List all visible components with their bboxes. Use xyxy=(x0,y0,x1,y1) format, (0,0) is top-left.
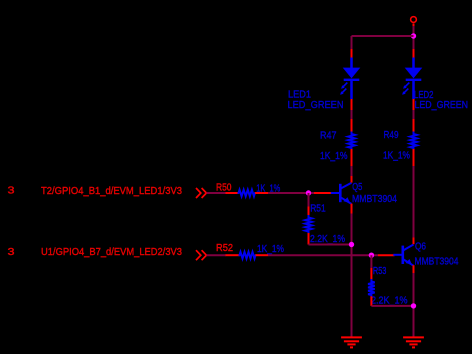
wire R53 to Q6 emitter xyxy=(371,305,413,307)
svg-text:R52: R52 xyxy=(216,242,233,254)
resistor R47 top pin xyxy=(351,119,353,132)
resistor R47 xyxy=(348,132,355,150)
wire connector to R50 xyxy=(207,192,227,194)
R51 value 2.2K_1% xyxy=(310,233,345,245)
R53 label xyxy=(373,265,387,277)
svg-text:Q6: Q6 xyxy=(415,241,426,253)
resistor R52 left pin xyxy=(226,254,240,256)
Q6 label xyxy=(415,241,426,253)
R50 label xyxy=(216,181,232,193)
svg-text:R51: R51 xyxy=(310,202,326,214)
Q5 label xyxy=(352,181,362,193)
Q6 collector pin xyxy=(413,238,415,245)
wire R51 to Q5 emitter xyxy=(309,244,352,246)
wire R49 to Q6 collector xyxy=(413,166,415,238)
wire Q5 emitter to ground xyxy=(351,214,353,338)
LED1 label xyxy=(288,89,311,101)
net U1/GPIO4_B7_d/EVM_LED2/3V3 xyxy=(41,246,182,258)
svg-text:3: 3 xyxy=(8,185,16,196)
wire Q6 emitter to ground xyxy=(413,273,415,337)
wire R52 to Q6 base xyxy=(268,254,378,256)
svg-text:1K_1%: 1K_1% xyxy=(257,243,284,255)
LED1 value LED_GREEN xyxy=(288,99,344,111)
resistor R52 xyxy=(239,252,257,259)
resistor R50 right pin xyxy=(255,192,268,194)
wire R47 to Q5 collector xyxy=(351,166,353,176)
junction node B xyxy=(369,253,374,258)
resistor R47 bottom pin xyxy=(351,149,353,166)
wire node A to R51 xyxy=(308,193,310,207)
R51 label xyxy=(310,202,326,214)
LED2 cathode pin xyxy=(413,99,415,110)
svg-text:T2/GPIO4_B1_d/EVM_LED1/3V3: T2/GPIO4_B1_d/EVM_LED1/3V3 xyxy=(41,185,182,197)
resistor R49 bottom pin xyxy=(413,149,415,166)
off-page connector net2 xyxy=(196,250,206,260)
transistor Q6 base pin xyxy=(378,254,395,256)
svg-text:3: 3 xyxy=(8,247,16,258)
node sheet ref 3 (net1) xyxy=(8,185,16,196)
svg-text:R47: R47 xyxy=(320,129,337,141)
ground GND1 xyxy=(341,337,362,347)
R49 label xyxy=(384,129,399,141)
LED2 label xyxy=(414,89,434,101)
R53 value 2.2K_1% xyxy=(371,294,408,306)
R52 label xyxy=(216,242,233,254)
ground GND2 xyxy=(403,337,424,347)
resistor R50 xyxy=(238,190,257,197)
LED2 value LED_GREEN xyxy=(415,99,469,111)
resistor R53 top pin xyxy=(370,268,372,280)
wire LED1 to R47 xyxy=(351,110,353,120)
svg-text:2.2K_1%: 2.2K_1% xyxy=(310,233,345,245)
resistor R53 xyxy=(368,279,375,297)
svg-text:R49: R49 xyxy=(384,129,399,141)
resistor R49 top pin xyxy=(413,119,415,132)
resistor R52 right pin xyxy=(256,254,269,256)
net T2/GPIO4_B1_d/EVM_LED1/3V3 xyxy=(41,185,182,197)
node sheet ref 3 (net2) xyxy=(8,247,16,258)
resistor R53 bottom pin xyxy=(370,296,372,306)
transistor Q5 xyxy=(331,183,352,204)
resistor R49 xyxy=(410,132,417,150)
Q5 collector pin xyxy=(351,176,353,183)
off-page connector net1 xyxy=(196,188,206,198)
resistor R50 left pin xyxy=(226,192,239,194)
R49 value 1K_1% xyxy=(383,149,410,161)
junction R51/Q5 emitter xyxy=(349,242,354,247)
R47 value 1K_1% xyxy=(320,150,348,162)
resistor R51 top pin xyxy=(308,207,310,216)
junction R53/Q6 emitter xyxy=(411,303,416,308)
R52 value 1K_1% xyxy=(257,243,284,255)
transistor Q6 xyxy=(393,245,413,266)
resistor R51 xyxy=(305,215,312,233)
wire R50 to node A xyxy=(268,192,314,194)
wire LED2 to R49 xyxy=(413,110,415,120)
svg-text:MMBT3904: MMBT3904 xyxy=(415,255,459,267)
power symbol VCC xyxy=(411,17,417,27)
resistor R51 bottom pin xyxy=(308,233,310,245)
LED2 anode pin xyxy=(413,49,415,60)
svg-text:R50: R50 xyxy=(216,181,232,193)
Q6 emitter pin xyxy=(413,265,415,273)
junction power rail xyxy=(411,33,416,38)
LED D LED1 xyxy=(340,58,360,100)
wire power rail horizontal xyxy=(352,36,414,49)
wire node B to R53 xyxy=(370,255,372,268)
svg-text:MMBT3904: MMBT3904 xyxy=(352,193,397,205)
LED1 anode pin xyxy=(351,49,353,60)
R50 value 1K_1% xyxy=(256,183,280,195)
svg-text:1K_1%: 1K_1% xyxy=(320,150,348,162)
wire connector to R52 xyxy=(207,254,227,256)
svg-text:U1/GPIO4_B7_d/EVM_LED2/3V3: U1/GPIO4_B7_d/EVM_LED2/3V3 xyxy=(41,246,182,258)
junction node A xyxy=(306,190,311,195)
svg-text:2.2K_1%: 2.2K_1% xyxy=(371,294,408,306)
wire power rail vertical xyxy=(413,26,415,49)
R47 label xyxy=(320,129,337,141)
svg-text:Q5: Q5 xyxy=(352,181,362,193)
Q5 emitter pin xyxy=(351,204,353,214)
svg-text:LED_GREEN: LED_GREEN xyxy=(288,99,344,111)
LED D LED2 xyxy=(402,58,422,100)
LED1 cathode pin xyxy=(351,99,353,110)
Q6 value MMBT3904 xyxy=(415,255,459,267)
svg-text:LED_GREEN: LED_GREEN xyxy=(415,99,469,111)
svg-text:1K_1%: 1K_1% xyxy=(383,149,410,161)
transistor Q5 base pin xyxy=(314,192,332,194)
svg-text:R53: R53 xyxy=(373,265,387,277)
Q5 value MMBT3904 xyxy=(352,193,397,205)
